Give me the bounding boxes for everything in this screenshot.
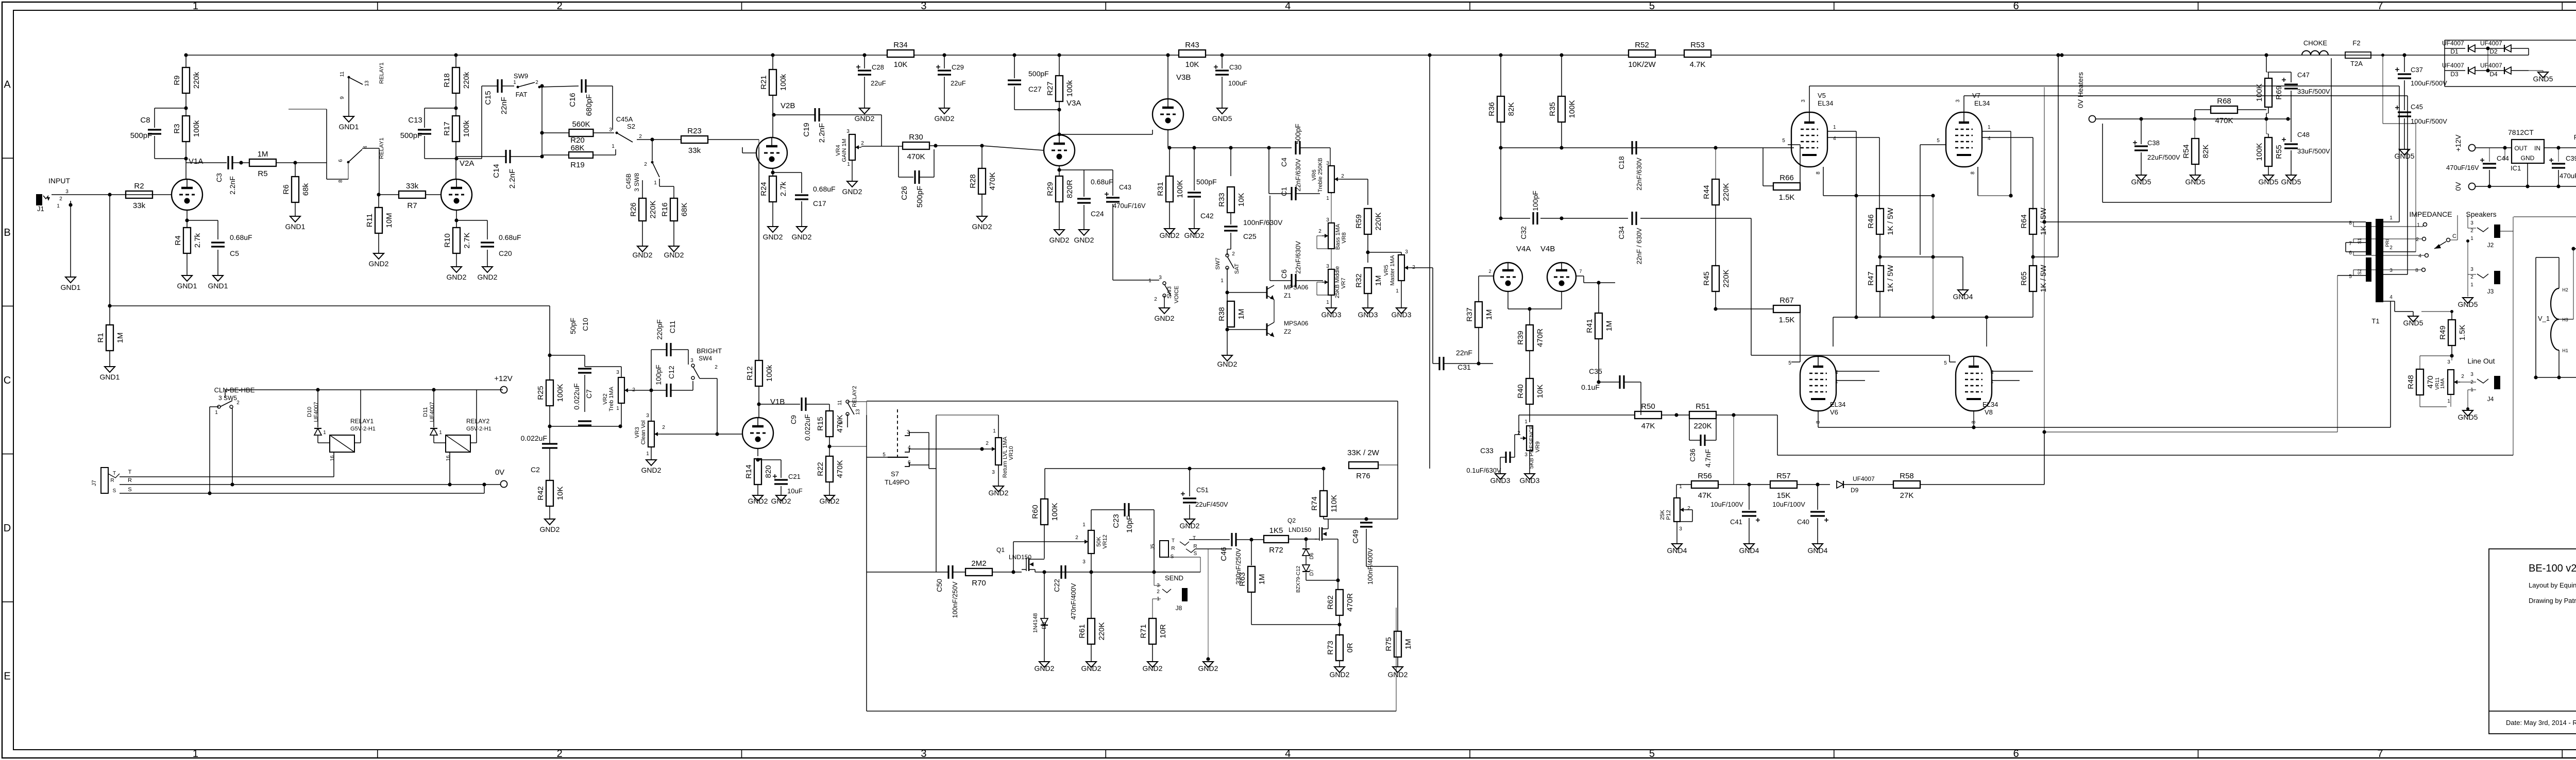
svg-text:500pF: 500pF bbox=[916, 186, 924, 208]
svg-text:INPUT: INPUT bbox=[48, 177, 70, 185]
svg-text:6: 6 bbox=[338, 159, 344, 162]
svg-text:GND2: GND2 bbox=[641, 466, 662, 474]
svg-text:SW9: SW9 bbox=[514, 72, 528, 80]
svg-text:33uF/500V: 33uF/500V bbox=[2297, 88, 2330, 95]
svg-text:6: 6 bbox=[2349, 250, 2352, 256]
svg-text:Return LVL 1MA: Return LVL 1MA bbox=[1002, 436, 1008, 478]
svg-text:R41: R41 bbox=[1585, 319, 1594, 333]
svg-text:C19: C19 bbox=[802, 123, 811, 137]
svg-text:GND3: GND3 bbox=[1358, 310, 1378, 319]
svg-text:2: 2 bbox=[1488, 269, 1491, 274]
svg-text:EL34: EL34 bbox=[1974, 99, 1990, 107]
svg-text:C2: C2 bbox=[531, 465, 540, 474]
resistor R4 bbox=[183, 228, 191, 253]
wire PI lower row bbox=[1500, 148, 1501, 218]
resistor R28 bbox=[981, 146, 982, 168]
wire plate to OT bbox=[2010, 131, 2011, 196]
svg-text:R34: R34 bbox=[893, 41, 908, 49]
wire impedance taps bbox=[2353, 222, 2354, 227]
svg-text:470K: 470K bbox=[988, 172, 997, 190]
svg-text:GND5: GND5 bbox=[2259, 178, 2279, 186]
wire screen node bbox=[1880, 256, 1933, 257]
svg-text:GND2: GND2 bbox=[1143, 664, 1163, 672]
svg-text:GND2: GND2 bbox=[1180, 522, 1200, 530]
ground GND2 R22 bbox=[824, 495, 835, 501]
ground GND2 SW3 bbox=[1159, 308, 1170, 314]
svg-text:GND1: GND1 bbox=[285, 222, 306, 231]
svg-text:470K: 470K bbox=[907, 152, 925, 161]
svg-text:50pF: 50pF bbox=[569, 318, 577, 334]
svg-text:R60: R60 bbox=[1031, 505, 1040, 519]
ground GND1 input bbox=[65, 277, 76, 283]
svg-text:0V: 0V bbox=[495, 468, 504, 477]
svg-text:1: 1 bbox=[654, 180, 657, 186]
svg-text:8: 8 bbox=[2415, 268, 2418, 273]
svg-text:C36: C36 bbox=[1688, 448, 1697, 462]
svg-text:T1: T1 bbox=[2371, 317, 2379, 325]
wire return path bbox=[1200, 548, 1234, 549]
svg-text:VR2: VR2 bbox=[602, 393, 608, 404]
svg-text:GND3: GND3 bbox=[1490, 476, 1511, 485]
ground GND5 R55 bbox=[2263, 175, 2274, 181]
svg-text:10K: 10K bbox=[1185, 60, 1199, 69]
wire fx +B rail bbox=[1045, 468, 1324, 469]
wire heater dc row bbox=[2096, 118, 2288, 119]
svg-text:R18: R18 bbox=[443, 73, 451, 88]
resistor R70 bbox=[965, 568, 992, 576]
capacitor C20 bbox=[487, 220, 488, 239]
resistor R37 bbox=[1475, 302, 1482, 327]
resistor R38 bbox=[1227, 301, 1234, 327]
svg-text:100uF/500V: 100uF/500V bbox=[2411, 117, 2447, 125]
resistor R2 bbox=[126, 191, 152, 198]
ground GND2 R61 bbox=[1086, 662, 1096, 667]
resistor R67 bbox=[1773, 305, 1800, 313]
svg-text:S: S bbox=[1171, 554, 1174, 560]
resistor R65 bbox=[2029, 266, 2037, 291]
svg-text:22nF: 22nF bbox=[1456, 349, 1472, 357]
svg-text:J1: J1 bbox=[37, 205, 44, 213]
svg-text:C37: C37 bbox=[2411, 66, 2423, 74]
capacitor C29 bbox=[944, 55, 945, 68]
svg-text:R37: R37 bbox=[1465, 307, 1474, 322]
svg-text:SW4: SW4 bbox=[699, 355, 712, 362]
svg-text:15K: 15K bbox=[1777, 491, 1791, 500]
svg-text:3: 3 bbox=[921, 1, 926, 12]
svg-text:2: 2 bbox=[2416, 237, 2419, 243]
svg-text:C4: C4 bbox=[1280, 158, 1288, 167]
svg-text:D11: D11 bbox=[422, 407, 429, 417]
resistor R39 bbox=[1529, 309, 1530, 325]
svg-text:68K: 68K bbox=[571, 144, 585, 152]
capacitor C45 bbox=[2398, 111, 2411, 113]
svg-text:R64: R64 bbox=[2020, 214, 2028, 229]
svg-text:GAIN 1M: GAIN 1M bbox=[841, 139, 848, 162]
svg-text:GND2: GND2 bbox=[1198, 664, 1218, 672]
svg-text:3: 3 bbox=[846, 129, 850, 134]
wire V3B cathode out bbox=[1167, 130, 1168, 148]
svg-text:220K: 220K bbox=[1374, 212, 1383, 230]
svg-text:7: 7 bbox=[1579, 269, 1582, 274]
svg-text:500pF: 500pF bbox=[400, 131, 422, 140]
svg-text:3: 3 bbox=[1801, 99, 1806, 102]
svg-text:220pF: 220pF bbox=[655, 319, 664, 340]
resistor R75 bbox=[1397, 566, 1398, 631]
svg-text:R39: R39 bbox=[1516, 331, 1525, 345]
svg-text:Line Out: Line Out bbox=[2468, 357, 2495, 365]
svg-text:R30: R30 bbox=[909, 133, 923, 142]
svg-text:V2A: V2A bbox=[460, 159, 474, 168]
svg-text:GND5: GND5 bbox=[2185, 178, 2206, 186]
resistor R11 bbox=[378, 195, 379, 208]
svg-text:EL34: EL34 bbox=[1818, 99, 1833, 107]
svg-text:1: 1 bbox=[215, 410, 218, 416]
svg-text:C28: C28 bbox=[872, 63, 884, 71]
svg-text:GND2: GND2 bbox=[1184, 231, 1205, 239]
svg-text:D7: D7 bbox=[1309, 569, 1315, 576]
svg-text:500pF: 500pF bbox=[1294, 124, 1302, 144]
svg-text:D2: D2 bbox=[2489, 48, 2498, 55]
svg-text:T: T bbox=[113, 471, 116, 476]
ground GND2 C42 bbox=[1189, 229, 1199, 234]
svg-text:1: 1 bbox=[612, 144, 615, 149]
svg-text:680pF: 680pF bbox=[585, 94, 594, 116]
svg-text:R7: R7 bbox=[407, 201, 417, 210]
svg-text:C30: C30 bbox=[1229, 63, 1242, 71]
svg-text:100pF: 100pF bbox=[1531, 191, 1539, 211]
svg-text:C13: C13 bbox=[408, 116, 422, 125]
svg-text:5: 5 bbox=[1649, 1, 1655, 12]
ground GND1 C5 bbox=[213, 275, 223, 281]
svg-text:GND1: GND1 bbox=[100, 373, 120, 381]
svg-text:IN: IN bbox=[2534, 145, 2540, 152]
svg-text:C17: C17 bbox=[813, 199, 826, 208]
svg-text:MPSA06: MPSA06 bbox=[1284, 320, 1309, 327]
ground GND5 C48 bbox=[2286, 175, 2296, 181]
wire cathode bus bottom bbox=[1833, 317, 2033, 318]
ground GND3 R32 bbox=[1363, 308, 1373, 314]
svg-text:R19: R19 bbox=[570, 161, 585, 169]
wire S2 to R23 bbox=[637, 139, 681, 140]
svg-text:GND5: GND5 bbox=[2458, 413, 2478, 421]
ground GND2 R42 bbox=[545, 519, 555, 525]
resistor R31 bbox=[1169, 148, 1170, 176]
svg-text:GND3: GND3 bbox=[1520, 476, 1540, 485]
ground GND1 relay bbox=[344, 116, 354, 122]
svg-text:33k: 33k bbox=[406, 182, 419, 191]
svg-text:68k: 68k bbox=[301, 183, 310, 196]
wire clean vol wiper bbox=[660, 434, 742, 435]
capacitor C26 bbox=[898, 146, 899, 177]
svg-text:3: 3 bbox=[609, 127, 612, 133]
title block bbox=[2489, 549, 2576, 734]
svg-text:R76: R76 bbox=[1356, 472, 1370, 480]
wire V2A plate node bbox=[456, 158, 482, 159]
svg-text:R11: R11 bbox=[365, 214, 374, 227]
resistor R12 bbox=[758, 147, 759, 360]
svg-text:GND2: GND2 bbox=[771, 497, 791, 505]
wire heater sub bus bbox=[2514, 216, 2576, 217]
svg-text:1M: 1M bbox=[1485, 309, 1494, 320]
svg-text:GND2: GND2 bbox=[1035, 664, 1055, 672]
svg-text:1M: 1M bbox=[1605, 321, 1614, 332]
svg-text:Treb 1MA: Treb 1MA bbox=[608, 386, 615, 411]
svg-text:Q2: Q2 bbox=[1287, 517, 1296, 524]
svg-text:10M: 10M bbox=[385, 213, 394, 228]
svg-text:R3: R3 bbox=[173, 124, 181, 133]
svg-text:3 SW8: 3 SW8 bbox=[633, 173, 640, 192]
svg-text:10R: 10R bbox=[1159, 624, 1167, 638]
svg-text:22uF: 22uF bbox=[871, 79, 886, 87]
svg-text:2.7K: 2.7K bbox=[463, 233, 471, 249]
svg-text:13: 13 bbox=[364, 80, 370, 87]
svg-text:C47: C47 bbox=[2297, 71, 2310, 79]
svg-text:3: 3 bbox=[1679, 526, 1682, 532]
wire V4 grids bbox=[1493, 275, 1494, 277]
svg-text:470: 470 bbox=[2426, 375, 2435, 388]
svg-text:R56: R56 bbox=[1698, 472, 1712, 480]
svg-text:3: 3 bbox=[646, 413, 649, 419]
svg-text:VR12: VR12 bbox=[1102, 534, 1108, 549]
svg-text:100K: 100K bbox=[2255, 143, 2264, 161]
svg-text:R49: R49 bbox=[2438, 325, 2447, 340]
svg-text:1: 1 bbox=[323, 430, 326, 436]
svg-text:100K: 100K bbox=[2255, 83, 2264, 101]
svg-text:R32: R32 bbox=[1354, 273, 1363, 288]
svg-text:4: 4 bbox=[2389, 295, 2393, 300]
svg-text:UF4007: UF4007 bbox=[313, 402, 319, 422]
svg-text:1M: 1M bbox=[258, 150, 268, 159]
resistor R73 bbox=[1336, 635, 1343, 661]
svg-text:5: 5 bbox=[1788, 360, 1791, 366]
svg-text:220K: 220K bbox=[649, 200, 657, 218]
svg-text:GND2: GND2 bbox=[855, 114, 875, 123]
ground GND2 VR4 bbox=[847, 181, 857, 187]
ground GND2 R26 bbox=[637, 246, 648, 252]
ground GND1 R6 bbox=[290, 216, 300, 222]
svg-text:+12V: +12V bbox=[494, 374, 512, 383]
svg-text:R15: R15 bbox=[816, 417, 825, 431]
svg-text:1K / 5W: 1K / 5W bbox=[2039, 264, 2048, 292]
svg-text:C6: C6 bbox=[1280, 269, 1288, 279]
resistor R64 bbox=[2029, 209, 2037, 234]
svg-text:C45A: C45A bbox=[616, 115, 633, 123]
svg-text:1: 1 bbox=[1835, 379, 1838, 385]
resistor R9 bbox=[182, 67, 190, 93]
svg-text:V4A: V4A bbox=[1516, 245, 1531, 253]
svg-text:RELAY1: RELAY1 bbox=[379, 137, 385, 159]
svg-text:LND150: LND150 bbox=[1289, 526, 1311, 533]
ground GND2 R14 bbox=[753, 495, 763, 501]
svg-text:100K: 100K bbox=[1176, 180, 1184, 198]
svg-text:V_1: V_1 bbox=[2538, 315, 2550, 322]
svg-text:R57: R57 bbox=[1776, 472, 1791, 480]
svg-text:25K: 25K bbox=[1659, 510, 1666, 520]
resistor R72 bbox=[1264, 536, 1289, 543]
svg-text:13: 13 bbox=[855, 409, 861, 415]
svg-text:R66: R66 bbox=[1780, 174, 1794, 182]
svg-text:2.2nF: 2.2nF bbox=[228, 176, 236, 195]
svg-text:R73: R73 bbox=[1326, 641, 1335, 655]
svg-text:1: 1 bbox=[2417, 222, 2420, 228]
wire PI plate row bbox=[1501, 147, 1716, 148]
resistor R35 bbox=[1558, 96, 1565, 122]
svg-text:22nF/630V: 22nF/630V bbox=[1635, 158, 1643, 191]
ground GND2 R75 bbox=[1393, 667, 1403, 672]
svg-text:BRIGHT: BRIGHT bbox=[697, 347, 722, 355]
svg-text:47K: 47K bbox=[1698, 491, 1712, 500]
svg-text:3: 3 bbox=[65, 189, 69, 195]
svg-text:1N4148: 1N4148 bbox=[1032, 613, 1039, 633]
svg-text:0.68uF: 0.68uF bbox=[813, 185, 836, 193]
svg-text:VOICE: VOICE bbox=[1174, 286, 1180, 303]
svg-text:5: 5 bbox=[1937, 138, 1940, 144]
svg-text:470R: 470R bbox=[1536, 329, 1545, 347]
svg-text:R47: R47 bbox=[1867, 271, 1875, 286]
svg-text:11: 11 bbox=[340, 71, 345, 77]
resistor R54 bbox=[2194, 119, 2195, 139]
resistor R45 bbox=[1712, 266, 1719, 291]
svg-text:R33: R33 bbox=[1217, 193, 1226, 207]
svg-text:GND2: GND2 bbox=[1081, 664, 1101, 672]
svg-text:2: 2 bbox=[861, 141, 864, 146]
svg-text:3: 3 bbox=[921, 748, 926, 759]
ground GND2 C51 bbox=[1184, 519, 1195, 525]
svg-text:C: C bbox=[4, 375, 11, 386]
svg-text:1: 1 bbox=[847, 162, 850, 167]
wire master wiper out bbox=[1411, 267, 1433, 268]
capacitor C39 bbox=[2558, 148, 2559, 162]
svg-text:C39: C39 bbox=[2566, 154, 2576, 162]
wire treble out to R59 bbox=[1341, 179, 1368, 180]
svg-text:2.2nF: 2.2nF bbox=[508, 169, 517, 188]
wire VR12 wiper to gate bbox=[1013, 541, 1080, 542]
resistor R14 bbox=[757, 448, 758, 456]
svg-text:GND5: GND5 bbox=[1212, 114, 1232, 123]
svg-text:C31: C31 bbox=[1458, 363, 1471, 371]
capacitor C32 bbox=[1532, 212, 1534, 224]
svg-text:2: 2 bbox=[1157, 589, 1160, 595]
svg-text:R31: R31 bbox=[1156, 182, 1165, 196]
ground GND2 VR3 bbox=[646, 460, 656, 465]
svg-text:C51: C51 bbox=[1196, 486, 1209, 494]
svg-text:SEND: SEND bbox=[1165, 574, 1183, 582]
wire fx loop routing bbox=[867, 401, 1398, 402]
svg-text:4: 4 bbox=[2418, 253, 2421, 259]
svg-text:8: 8 bbox=[1970, 171, 1976, 175]
resistor R44 bbox=[1715, 148, 1716, 179]
svg-text:CHOKE: CHOKE bbox=[2303, 39, 2328, 47]
svg-text:GND2: GND2 bbox=[792, 233, 812, 241]
wire bias block outline bbox=[2102, 124, 2103, 202]
svg-text:4: 4 bbox=[1833, 136, 1836, 142]
capacitor C15 bbox=[497, 79, 498, 93]
svg-text:UF4007: UF4007 bbox=[2442, 62, 2464, 69]
svg-text:0.68uF: 0.68uF bbox=[1091, 178, 1113, 186]
svg-text:R6: R6 bbox=[282, 184, 291, 194]
svg-text:500pF: 500pF bbox=[1028, 70, 1049, 78]
svg-text:GND2: GND2 bbox=[1049, 236, 1070, 244]
svg-text:R72: R72 bbox=[1269, 546, 1283, 555]
svg-text:GND4: GND4 bbox=[1808, 546, 1828, 555]
svg-text:D10: D10 bbox=[307, 407, 313, 417]
svg-text:22nF / 630V: 22nF / 630V bbox=[1635, 228, 1643, 264]
capacitor C19 bbox=[774, 114, 815, 115]
svg-text:GND5: GND5 bbox=[2281, 178, 2301, 186]
capacitor C31 bbox=[1433, 363, 1439, 364]
svg-text:220K: 220K bbox=[1097, 622, 1106, 640]
svg-text:1: 1 bbox=[1221, 278, 1224, 284]
ground GND2 D5 bbox=[1039, 662, 1049, 667]
resistor R27 bbox=[1056, 76, 1063, 101]
svg-text:8: 8 bbox=[1816, 171, 1821, 175]
ground GND2 VR10 bbox=[993, 486, 1004, 492]
svg-text:C38: C38 bbox=[2147, 139, 2160, 147]
capacitor C24 bbox=[1059, 169, 1084, 170]
svg-text:3: 3 bbox=[1405, 249, 1408, 255]
svg-text:C33: C33 bbox=[1480, 446, 1494, 455]
svg-text:R43: R43 bbox=[1185, 41, 1199, 49]
svg-text:V8: V8 bbox=[1985, 408, 1993, 416]
svg-text:820: 820 bbox=[764, 465, 773, 478]
ground GND5 T1 bbox=[2408, 316, 2418, 322]
svg-text:33uF/500V: 33uF/500V bbox=[2297, 147, 2330, 155]
wire tone junction row bbox=[550, 426, 620, 427]
svg-text:1: 1 bbox=[1679, 484, 1682, 490]
svg-text:33k: 33k bbox=[133, 201, 146, 210]
svg-text:1M: 1M bbox=[1258, 574, 1266, 585]
svg-text:C1: C1 bbox=[1280, 187, 1288, 196]
ground GND2 R10 bbox=[451, 267, 462, 272]
svg-text:47K: 47K bbox=[1641, 422, 1655, 430]
svg-text:22nF: 22nF bbox=[500, 97, 509, 114]
svg-text:E: E bbox=[4, 670, 10, 682]
capacitor C14 bbox=[505, 150, 506, 163]
svg-text:R52: R52 bbox=[1635, 41, 1649, 49]
svg-text:R69: R69 bbox=[2275, 85, 2283, 100]
svg-text:3: 3 bbox=[1326, 217, 1329, 223]
svg-text:2: 2 bbox=[715, 365, 718, 370]
svg-text:3: 3 bbox=[2447, 359, 2450, 365]
svg-text:D1: D1 bbox=[2450, 48, 2459, 55]
svg-text:1: 1 bbox=[2447, 399, 2450, 404]
svg-text:8: 8 bbox=[338, 180, 344, 183]
wire send bus bbox=[1044, 572, 1200, 573]
svg-text:1: 1 bbox=[439, 430, 442, 436]
transformer T1 secondary bbox=[2366, 222, 2371, 255]
svg-text:0V: 0V bbox=[2454, 182, 2462, 191]
svg-text:3: 3 bbox=[2470, 267, 2473, 272]
svg-text:J5: J5 bbox=[1150, 544, 1156, 550]
svg-text:UF4007: UF4007 bbox=[2480, 40, 2502, 47]
svg-text:10K: 10K bbox=[1536, 385, 1545, 399]
svg-text:0.1uF: 0.1uF bbox=[1581, 383, 1600, 391]
svg-text:33k: 33k bbox=[688, 146, 701, 155]
svg-text:4.7nF: 4.7nF bbox=[1704, 449, 1712, 468]
resistor R32 bbox=[1364, 268, 1371, 293]
svg-text:D4: D4 bbox=[2489, 71, 2498, 78]
svg-text:VR3: VR3 bbox=[634, 427, 640, 438]
svg-text:A: A bbox=[4, 79, 11, 91]
wire footswitch R bbox=[120, 484, 500, 485]
svg-text:3: 3 bbox=[992, 470, 995, 475]
svg-text:2: 2 bbox=[1341, 174, 1344, 179]
svg-text:1: 1 bbox=[616, 406, 619, 411]
svg-text:2.7k: 2.7k bbox=[779, 181, 788, 196]
svg-text:5: 5 bbox=[1944, 360, 1947, 366]
ground GND4 P12 bbox=[1672, 544, 1682, 549]
capacitor C28 bbox=[864, 55, 865, 68]
